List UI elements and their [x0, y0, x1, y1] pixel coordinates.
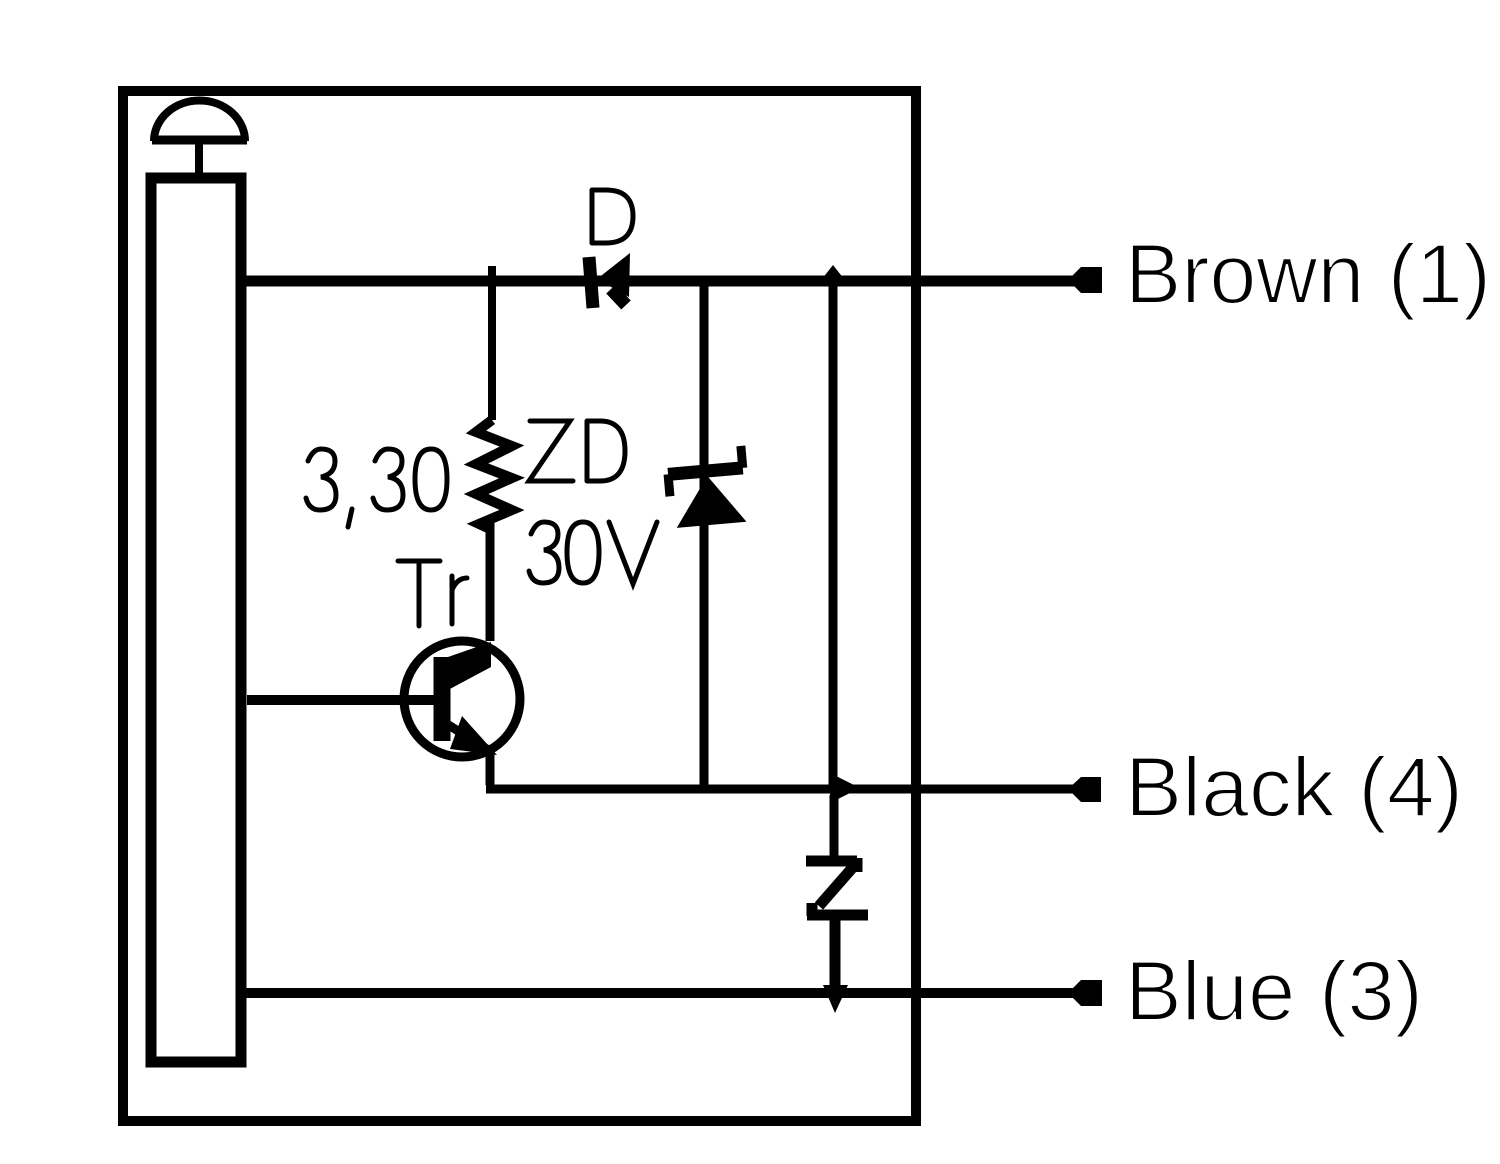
- label ZD (zener designator): [529, 421, 573, 481]
- junction on black line: [830, 773, 860, 803]
- label Tr (transistor designator): [398, 561, 440, 626]
- transistor collector stroke: [448, 642, 491, 690]
- wire: blue bottom rail: [246, 988, 1080, 998]
- zener diode ZD 30V: [666, 446, 747, 528]
- wire: emitter stem: [486, 748, 495, 785]
- transistor base bar: [434, 657, 451, 741]
- sensor housing border: [123, 91, 916, 1121]
- dome stem: [195, 143, 203, 178]
- svg-text:Black (4): Black (4): [1125, 740, 1463, 834]
- junction on top rail: [822, 265, 844, 292]
- wire: resistor branch upper: [488, 266, 496, 420]
- terminal brown: [1068, 267, 1102, 293]
- transistor emitter stroke: [447, 724, 490, 751]
- transistor Q Tr circle: [404, 641, 520, 757]
- sensing element plate: [151, 178, 241, 1062]
- wire: zener branch: [700, 281, 709, 785]
- emitter arrowhead: [450, 716, 497, 755]
- label D (diode): [592, 190, 633, 243]
- svg-text:Blue (3): Blue (3): [1125, 944, 1423, 1038]
- label 30V (zener voltage): [529, 522, 559, 583]
- wire: base from plate: [247, 695, 434, 705]
- wire: black output line: [486, 785, 1080, 794]
- diode D: [589, 253, 630, 308]
- svg-text:Brown (1): Brown (1): [1125, 227, 1491, 321]
- Z protection element: [830, 795, 839, 858]
- wire: resistor branch lower: [486, 523, 495, 641]
- Z element arrowhead: [823, 985, 848, 1013]
- label 3,30 (resistor value): [306, 449, 336, 510]
- terminal blue: [1068, 980, 1102, 1006]
- terminal black: [1068, 777, 1101, 802]
- wire: right vertical branch: [829, 281, 838, 789]
- resistor 3,30 zigzag: [476, 420, 512, 530]
- sensor head dome: [154, 101, 245, 141]
- wire: top brown rail: [246, 276, 1080, 287]
